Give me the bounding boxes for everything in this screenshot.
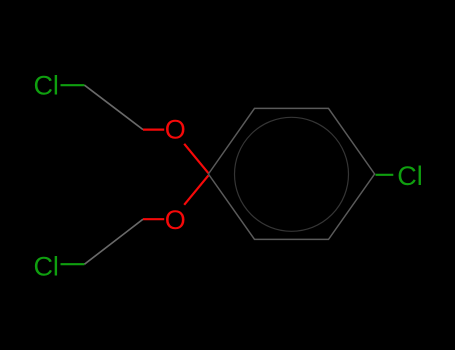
bond O-C(ring) upper diagonal (red): [184, 144, 208, 173]
svg-text:O: O: [165, 205, 186, 235]
svg-text:Cl: Cl: [33, 71, 59, 101]
svg-text:O: O: [165, 115, 186, 145]
bond ring-Cl (right, green): [376, 174, 394, 176]
bond CH2-O (top arm, red): [143, 129, 164, 131]
benzene ring hexagon (gray): [208, 108, 374, 239]
bond CH2-CH2 (bottom arm, gray): [85, 219, 144, 264]
bond CH2-CH2 (top arm, gray): [85, 85, 144, 129]
bond Cl-CH2 (bottom arm, green): [61, 263, 85, 265]
bond O-C(ring) lower diagonal (red): [184, 175, 208, 204]
bond Cl-CH2 (top arm, green): [61, 84, 85, 86]
svg-text:Cl: Cl: [397, 161, 423, 191]
svg-text:Cl: Cl: [33, 252, 59, 282]
bond CH2-O (bottom arm, red): [143, 218, 164, 220]
aromatic circle: [235, 117, 349, 231]
